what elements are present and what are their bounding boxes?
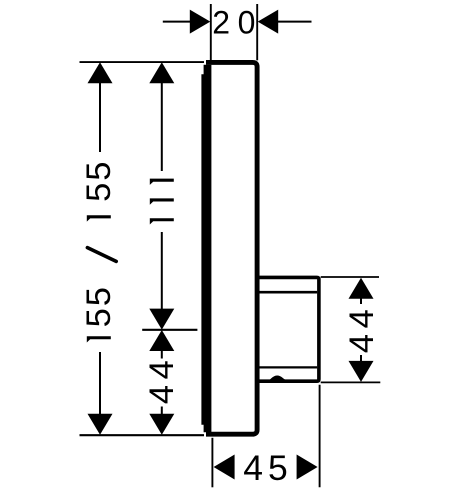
dim 111: up arrowhead: [149, 62, 174, 83]
small hump on box bottom edge: [269, 376, 287, 381]
dim 44 left: lower line segment: [161, 407, 163, 415]
dim 155/155: upper line segment: [99, 83, 101, 153]
valve body box outline (top/right/bottom): [257, 277, 319, 381]
dim 111: lower line segment: [161, 232, 163, 309]
svg-text:44: 44: [143, 355, 181, 404]
dim 44 right: upper line segment: [360, 298, 362, 304]
dim 44 left: upper line segment: [161, 351, 163, 359]
dim 155/155: lower line segment: [99, 352, 101, 415]
dim 111: label digit 1: [150, 179, 174, 185]
box inner line upper: [257, 291, 317, 294]
dim 45: left extension line: [211, 438, 213, 488]
mid tick line (box centerline): [142, 329, 197, 331]
dim 45: left arrowhead: [214, 455, 235, 480]
dim 45: right arrowhead: [297, 455, 318, 480]
svg-text:55: 55: [80, 285, 118, 327]
dim 20: right extension line: [256, 4, 258, 60]
dim 44 right: lower line segment: [360, 355, 362, 362]
dim 20: left extension line: [210, 4, 212, 60]
dim 20: right leader line: [278, 21, 312, 23]
plate front face bar (thick left edge with steps): [201, 65, 211, 433]
dim 44 right: up arrowhead: [349, 278, 374, 299]
box inner line lower: [257, 366, 317, 368]
svg-text:45: 45: [243, 448, 293, 488]
left bottom extension line: [80, 434, 205, 436]
dim 20: left leader line: [163, 21, 191, 23]
dim 155/155: second 155 digit 1: [87, 215, 111, 221]
dim 155/155: down arrowhead: [88, 414, 113, 435]
dim 44 right: top extension line: [321, 276, 379, 278]
left top extension line: [80, 61, 205, 63]
svg-text:55: 55: [80, 160, 118, 202]
svg-text:44: 44: [343, 304, 381, 353]
dim 44 right: down arrowhead: [349, 361, 374, 382]
dim 155/155: first 155 digit 1: [87, 336, 111, 342]
dim 155/155: label (slash): [87, 248, 116, 262]
dim 111: upper line segment: [161, 83, 163, 172]
dim 44 left: up arrowhead: [149, 330, 174, 351]
dim 111: label digit 2: [150, 198, 174, 204]
dim 45: right extension line: [319, 385, 321, 488]
dim 44 left: down arrowhead: [149, 414, 174, 435]
plate outline (escutcheon side view, top/right/bottom edges): [206, 62, 257, 434]
dim 44 right: bottom extension line: [321, 381, 381, 383]
dim 20: right arrowhead: [258, 10, 279, 34]
svg-text:20: 20: [212, 5, 263, 41]
dim 155/155: up arrowhead: [88, 62, 113, 83]
dim 111: label digit 3: [150, 218, 174, 224]
dim 111: down arrowhead: [149, 309, 174, 330]
dim 20: left arrowhead: [190, 10, 211, 34]
